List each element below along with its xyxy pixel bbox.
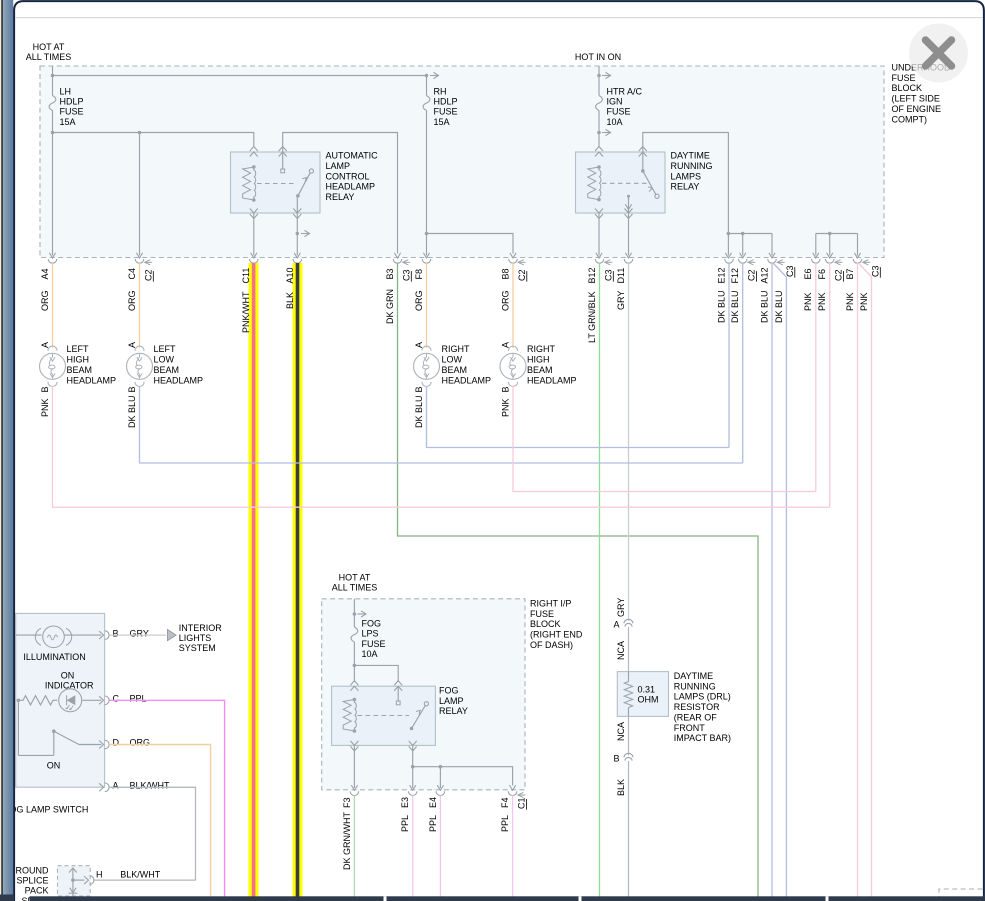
svg-text:BLOCK: BLOCK: [892, 83, 923, 93]
svg-text:ALL TIMES: ALL TIMES: [332, 583, 378, 593]
svg-text:B: B: [127, 386, 137, 392]
svg-text:GRY: GRY: [616, 291, 626, 310]
svg-text:B: B: [500, 386, 510, 392]
relay box: automatic lamp control headlamp relay: [231, 152, 321, 213]
wire ORG to lamp at x=426.5: [426, 263, 428, 348]
coil resistive element: [343, 700, 354, 732]
svg-text:ILLUMINATION: ILLUMINATION: [23, 652, 85, 662]
inline connector at A: [624, 619, 633, 623]
svg-text:B: B: [113, 628, 119, 638]
resistor zigzag (illumination dimmer): [17, 699, 21, 703]
svg-text:ORG: ORG: [40, 290, 50, 311]
wire PPL from fog switch: [109, 700, 224, 901]
fuse RH HDLP FUSE 15A: [426, 76, 428, 96]
wire bus to RH fuse: [53, 75, 427, 77]
headlamp bulb circle: [127, 353, 153, 379]
svg-text:FOG: FOG: [439, 686, 459, 696]
svg-text:PNK: PNK: [817, 292, 827, 311]
svg-text:LOW: LOW: [442, 355, 463, 365]
pin chevrons ALC relay top: [250, 147, 258, 152]
svg-text:C3: C3: [402, 269, 412, 281]
wire PPL pin E4: [439, 796, 441, 901]
fog connector cups: [350, 791, 359, 795]
svg-text:E3: E3: [400, 797, 410, 808]
wire RH fuse to ORG pins F8/B8: [426, 111, 428, 256]
wire PNK pin B7 branch 2 (through C3): [859, 264, 872, 901]
headlamp bulb circle: [500, 353, 526, 379]
svg-text:C3: C3: [785, 265, 795, 277]
svg-text:PPL: PPL: [500, 815, 510, 832]
svg-text:PPL: PPL: [400, 815, 410, 832]
svg-text:INTERIOR: INTERIOR: [179, 623, 223, 633]
svg-text:E4: E4: [428, 797, 438, 808]
wire PNK pin group bus E6 F6 B7: [816, 233, 858, 235]
connector pin arc at x=857.5: [853, 259, 862, 263]
svg-text:ORG: ORG: [127, 290, 137, 311]
svg-text:SYSTEM: SYSTEM: [179, 643, 216, 653]
wire fog switch output to pins E3 E4 F4: [412, 745, 414, 788]
bulb filament: [139, 354, 141, 358]
ALC relay middle pin wire + terminal square: [282, 152, 284, 169]
svg-text:B: B: [414, 386, 424, 392]
lamp socket cup: [48, 382, 57, 387]
splice pack wire: [72, 868, 74, 901]
svg-text:A: A: [113, 780, 119, 790]
node junction at LH bus: [51, 74, 55, 78]
svg-text:COMPT): COMPT): [892, 114, 928, 124]
wire DK GRN/WHT pin F3: [353, 796, 355, 901]
svg-text:IGN: IGN: [607, 97, 623, 107]
svg-text:RIGHT: RIGHT: [442, 344, 471, 354]
wire ORG from fog switch: [109, 745, 210, 901]
svg-text:BLOCK: BLOCK: [530, 619, 561, 629]
svg-text:HOT AT: HOT AT: [33, 42, 65, 52]
connector pin arc at x=52.5: [48, 259, 57, 263]
bulb filament: [512, 354, 514, 358]
connector pin arc at x=139.5: [135, 259, 144, 263]
svg-text:A4: A4: [40, 268, 50, 279]
connector pin arc at x=599.5: [595, 259, 604, 263]
svg-text:A: A: [414, 342, 424, 348]
connector pin arc at x=742.7: [738, 259, 747, 263]
svg-text:C11: C11: [241, 268, 251, 284]
svg-text:BLK: BLK: [616, 779, 626, 796]
svg-text:A: A: [127, 342, 137, 348]
svg-text:FUSE: FUSE: [892, 73, 916, 83]
svg-text:BEAM: BEAM: [67, 365, 93, 375]
svg-text:HEADLAMP: HEADLAMP: [154, 375, 204, 385]
fog relay pin chevrons: [350, 681, 358, 686]
svg-text:DK BLU: DK BLU: [127, 395, 137, 428]
ALC relay dashed actuation link: [257, 183, 295, 185]
svg-text:GRY: GRY: [616, 598, 626, 617]
bulb filament: [52, 354, 54, 358]
svg-text:(LEFT SIDE: (LEFT SIDE: [892, 94, 940, 104]
svg-text:ORG: ORG: [500, 290, 510, 311]
wire HOT IN ON feed: [598, 66, 600, 96]
svg-text:LAMP: LAMP: [439, 696, 464, 706]
svg-text:SPLICE: SPLICE: [16, 875, 48, 885]
wire DK BLU pin E12 down to bus: [728, 263, 730, 448]
fog relay switch: [410, 727, 414, 731]
svg-text:LAMPS (DRL): LAMPS (DRL): [674, 692, 731, 702]
wire PNK pin F6 down to bus: [829, 263, 831, 507]
svg-text:E12: E12: [716, 267, 726, 283]
svg-text:FOG: FOG: [362, 619, 382, 629]
svg-text:LPS: LPS: [362, 629, 379, 639]
svg-text:FUSE: FUSE: [60, 107, 84, 117]
svg-text:15A: 15A: [60, 117, 76, 127]
output C PPL: [99, 696, 104, 704]
svg-text:HIGH: HIGH: [527, 355, 550, 365]
lamp socket cup: [135, 382, 144, 387]
svg-text:C4: C4: [127, 268, 137, 280]
svg-text:PPL: PPL: [428, 815, 438, 832]
wire ALC switch output to pin A10: [296, 196, 298, 256]
fuse HTR A/C IGN FUSE 10A: [596, 96, 603, 111]
svg-text:A: A: [613, 620, 619, 630]
wire ORG to lamp at x=513: [512, 263, 514, 348]
connector pin arc at x=397.5: [393, 259, 402, 263]
wire PPL pin E3: [412, 796, 414, 901]
svg-text:B: B: [613, 754, 619, 764]
svg-text:D11: D11: [616, 268, 626, 284]
svg-text:LT GRN/BLK: LT GRN/BLK: [587, 291, 597, 343]
svg-text:PNK: PNK: [803, 292, 813, 311]
svg-text:HDLP: HDLP: [434, 97, 458, 107]
svg-text:FOG LAMP SWITCH: FOG LAMP SWITCH: [4, 805, 88, 815]
fog relay middle pin + square terminal: [397, 686, 399, 701]
svg-text:B7: B7: [845, 268, 855, 279]
wire ORG to lamp at x=139.5: [139, 263, 141, 348]
svg-text:HDLP: HDLP: [60, 97, 84, 107]
svg-text:CONTROL: CONTROL: [326, 171, 370, 181]
wire LT GRN/BLK pin B12 down to bottom: [599, 263, 601, 901]
wire ORG to lamp at x=52.5: [52, 263, 54, 348]
svg-text:ORG: ORG: [130, 737, 151, 747]
headlamp bulb circle: [414, 353, 440, 379]
svg-text:BLK: BLK: [285, 292, 295, 309]
relay box: daytime running lamps relay: [576, 152, 666, 213]
next diagram dashed box (bottom right corner): [939, 889, 985, 901]
fuse FOG LPS FUSE 10A: [351, 627, 358, 642]
svg-text:BEAM: BEAM: [154, 365, 180, 375]
svg-text:PNK: PNK: [500, 398, 510, 417]
svg-text:B3: B3: [385, 268, 395, 279]
svg-text:ORG: ORG: [414, 290, 424, 311]
svg-text:F6: F6: [817, 269, 827, 280]
svg-text:FRONT: FRONT: [674, 723, 705, 733]
wire ALC coil output to pin C11: [253, 213, 255, 256]
svg-text:FUSE: FUSE: [362, 639, 386, 649]
svg-text:F3: F3: [342, 797, 352, 808]
svg-text:10A: 10A: [607, 117, 623, 127]
svg-text:C2: C2: [747, 269, 757, 281]
svg-text:B12: B12: [587, 267, 597, 283]
svg-text:ALL TIMES: ALL TIMES: [26, 52, 72, 62]
svg-text:DK BLU: DK BLU: [716, 290, 726, 323]
wire LH fuse to pin A4: [52, 111, 54, 256]
highlight band for PNK/WHT wire C11: [249, 263, 259, 901]
wire DK BLU pin F12 down to bus: [742, 263, 744, 463]
ground splice pack dashed box: [58, 866, 91, 896]
wire fog coil output to pin F3: [353, 745, 355, 788]
svg-text:LH: LH: [60, 87, 72, 97]
svg-text:NCA: NCA: [616, 641, 626, 660]
svg-text:0.31: 0.31: [638, 685, 656, 695]
splice pack lower pad: [69, 892, 78, 894]
wire bus y132 feeding C4 and ALC relay coil: [53, 133, 254, 148]
svg-text:C3: C3: [604, 269, 614, 281]
lamp socket cap: [135, 346, 144, 351]
connector pin arc at x=297.3: [293, 259, 302, 263]
svg-text:PACK: PACK: [25, 886, 49, 896]
lamp socket cap: [508, 346, 517, 351]
svg-text:C: C: [113, 693, 120, 703]
svg-text:F8: F8: [414, 269, 424, 280]
wire bus to fog relay switch pin: [354, 665, 398, 682]
svg-text:AUTOMATIC: AUTOMATIC: [326, 151, 379, 161]
svg-text:DK BLU: DK BLU: [759, 290, 769, 323]
svg-text:FUSE: FUSE: [434, 107, 458, 117]
svg-text:HOT AT: HOT AT: [339, 572, 371, 582]
svg-text:A12: A12: [759, 267, 769, 283]
wire BLK to bottom: [628, 761, 630, 901]
coil resistive element: [588, 167, 599, 200]
connector pin arc at x=426.5: [422, 259, 431, 263]
svg-text:LAMP: LAMP: [326, 161, 351, 171]
window chrome: bottom scrollbar: [30, 896, 985, 901]
svg-text:NCA: NCA: [616, 722, 626, 741]
wire GRY pin D11 down to DRL resistor: [628, 263, 630, 621]
svg-text:LEFT: LEFT: [67, 344, 90, 354]
wire fog feed: [353, 599, 355, 627]
svg-text:HEADLAMP: HEADLAMP: [67, 375, 117, 385]
svg-text:DK BLU: DK BLU: [414, 395, 424, 428]
lamp socket cap: [422, 346, 431, 351]
wire DK GRN pin B3 down and across to x=758: [398, 263, 759, 901]
svg-text:LAMPS: LAMPS: [671, 171, 702, 181]
output B GRY to interior lights: [99, 631, 104, 639]
wire LH feed from HOT AT ALL TIMES: [52, 66, 54, 96]
svg-text:LEFT: LEFT: [154, 344, 177, 354]
svg-text:ON: ON: [47, 760, 61, 770]
svg-text:FUSE: FUSE: [530, 609, 554, 619]
ALC relay switch: [296, 194, 300, 198]
wire drop to pin C4: [139, 133, 141, 256]
wire BLK/WHT to ground splice pack: [94, 787, 195, 880]
wire DRL switch feed to DK BLU pin group: [643, 133, 729, 234]
svg-text:E6: E6: [803, 268, 813, 279]
svg-text:ON: ON: [61, 670, 75, 680]
svg-text:BEAM: BEAM: [442, 365, 468, 375]
DRL relay switch common wire to pin D11: [627, 195, 630, 198]
wire DRL coil output to pin B12: [598, 213, 600, 256]
svg-text:HEADLAMP: HEADLAMP: [326, 182, 376, 192]
lamp socket cap: [48, 346, 57, 351]
connector pin arc at x=253.8: [250, 259, 259, 263]
svg-text:C2: C2: [834, 269, 844, 281]
svg-text:15A: 15A: [434, 117, 450, 127]
svg-text:RELAY: RELAY: [326, 192, 355, 202]
svg-text:C2: C2: [517, 269, 527, 281]
wire PNK bus left high beam to pin F6: [53, 386, 830, 507]
window chrome: close button: [909, 24, 968, 83]
svg-text:RUNNING: RUNNING: [674, 681, 716, 691]
wire DK BLU bus left low beam to pin F12: [140, 386, 743, 463]
output A BLK/WHT: [99, 783, 104, 791]
svg-text:A: A: [40, 342, 50, 348]
connector pin arc at x=815.8: [812, 259, 821, 263]
wire fog fuse to fog relay: [353, 642, 355, 682]
headlamp bulb circle: [40, 353, 66, 379]
window chrome: header divider: [15, 17, 982, 19]
svg-text:RELAY: RELAY: [671, 182, 700, 192]
relay box: fog lamp relay: [332, 686, 436, 745]
svg-text:HIGH: HIGH: [67, 355, 90, 365]
svg-text:DAYTIME: DAYTIME: [674, 671, 713, 681]
inline connector at B: [624, 753, 633, 757]
svg-text:HEADLAMP: HEADLAMP: [442, 375, 492, 385]
right I/P fuse block dashed box: [322, 599, 525, 790]
illumination lamp: [16, 634, 42, 636]
svg-text:BLK/WHT: BLK/WHT: [130, 780, 171, 790]
wire PPL pin F4: [512, 796, 514, 901]
coil resistive element: [243, 167, 254, 200]
pin chevrons DRL relay bottom: [595, 209, 603, 214]
fog relay dashed actuation link: [358, 715, 410, 717]
svg-text:RESISTOR: RESISTOR: [674, 702, 720, 712]
fuse LH HDLP FUSE 15A: [49, 96, 56, 111]
svg-text:PPL: PPL: [130, 693, 147, 703]
wire NCA to resistor: [628, 627, 630, 672]
svg-text:BLK/WHT: BLK/WHT: [120, 870, 161, 880]
lamp socket cup: [508, 382, 517, 387]
svg-text:D: D: [113, 737, 120, 747]
svg-text:10A: 10A: [362, 649, 378, 659]
LED on indicator: [59, 689, 82, 712]
svg-text:DK GRN: DK GRN: [385, 289, 395, 324]
svg-text:LIGHTS: LIGHTS: [179, 633, 212, 643]
svg-text:PNK/WHT: PNK/WHT: [241, 291, 251, 333]
arrow to interior lights system: [168, 630, 177, 641]
DRL relay switch: [642, 152, 644, 171]
svg-text:PNK: PNK: [859, 292, 869, 311]
svg-text:DAYTIME: DAYTIME: [671, 151, 710, 161]
svg-text:PNK: PNK: [845, 292, 855, 311]
resistor box: DRL resistor 0.31 OHM: [617, 672, 668, 717]
svg-text:F12: F12: [730, 268, 740, 284]
connector pin arc at x=772: [768, 259, 777, 263]
svg-text:FUSE: FUSE: [607, 107, 631, 117]
svg-text:A10: A10: [285, 267, 295, 283]
svg-text:(RIGHT END: (RIGHT END: [530, 630, 583, 640]
DRL relay dashed actuation link: [602, 182, 647, 184]
svg-text:DK GRN/WHT: DK GRN/WHT: [342, 812, 352, 870]
highlight band for BLK wire A10: [293, 263, 303, 901]
svg-text:PNK: PNK: [40, 398, 50, 417]
svg-text:HEADLAMP: HEADLAMP: [527, 375, 577, 385]
underhood fuse block dashed box: [40, 66, 884, 258]
svg-text:HOT IN ON: HOT IN ON: [575, 52, 621, 62]
splice wire to output H: [73, 879, 85, 881]
svg-text:BEAM: BEAM: [527, 365, 553, 375]
wire drops to pins E12 F12 A12: [727, 234, 729, 256]
svg-text:F4: F4: [500, 797, 510, 808]
svg-text:OHM: OHM: [638, 695, 659, 705]
fog lamp switch box: [16, 613, 105, 787]
wire NCA below resistor: [628, 716, 630, 755]
wire DK BLU bus right low beam to pin E12: [427, 386, 730, 448]
svg-text:H: H: [96, 870, 103, 880]
connector pin arc at x=513: [509, 259, 518, 263]
wire PNK pin B7 branch 1: [857, 263, 859, 901]
svg-text:C2: C2: [144, 269, 154, 281]
bulb filament: [426, 354, 428, 358]
svg-text:RH: RH: [434, 87, 447, 97]
svg-text:A: A: [500, 342, 510, 348]
pin chevrons ALC relay bottom: [250, 209, 258, 214]
output D ORG: [79, 744, 102, 746]
wire DK BLU pin A12 branch 1: [771, 263, 773, 901]
wire PNK/WHT C11 core: [252, 263, 256, 901]
svg-text:DK BLU: DK BLU: [730, 290, 740, 323]
svg-text:B8: B8: [500, 268, 510, 279]
svg-text:B: B: [40, 386, 50, 392]
wire PNK pin E6 down to bus: [815, 263, 817, 492]
svg-text:RELAY: RELAY: [439, 706, 468, 716]
ALC wire bus to pin B3 (middle pin feed): [283, 133, 398, 254]
wire PNK bus right high beam to pin E6: [513, 386, 816, 492]
svg-text:HTR A/C: HTR A/C: [607, 87, 643, 97]
svg-text:OF ENGINE: OF ENGINE: [892, 104, 942, 114]
pin chevrons DRL relay top: [595, 147, 603, 152]
wire DK BLU pin A12 branch 2 (through C3): [774, 264, 787, 901]
fog switch lever: [17, 700, 19, 755]
svg-text:RUNNING: RUNNING: [671, 161, 713, 171]
svg-text:RIGHT I/P: RIGHT I/P: [530, 599, 571, 609]
svg-text:RIGHT: RIGHT: [527, 344, 556, 354]
svg-text:C1: C1: [517, 797, 527, 809]
wire HTR fuse to DRL relay coil: [598, 111, 600, 148]
svg-text:(REAR OF: (REAR OF: [674, 712, 718, 722]
connector pin arc at x=729: [725, 259, 734, 263]
wire BLK A10 core: [296, 263, 300, 901]
svg-text:IMPACT BAR): IMPACT BAR): [674, 733, 731, 743]
connector pin arc at x=628.5: [624, 259, 633, 263]
svg-text:OF DASH): OF DASH): [530, 640, 573, 650]
svg-text:C3: C3: [871, 265, 881, 277]
svg-text:LOW: LOW: [154, 355, 175, 365]
lamp socket cup: [422, 382, 431, 387]
svg-text:GRY: GRY: [130, 628, 149, 638]
connector pin arc at x=829.7: [825, 259, 834, 263]
svg-text:DK BLU: DK BLU: [774, 290, 784, 323]
